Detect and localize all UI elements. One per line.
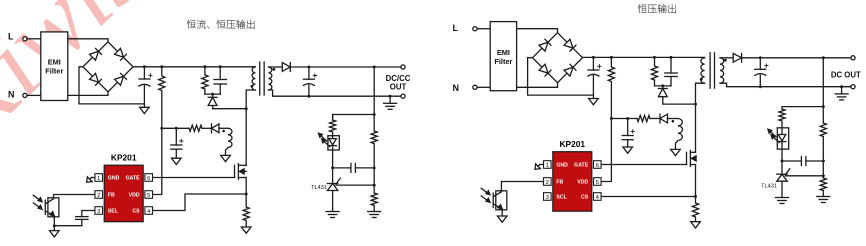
wire GATE: pin 6 to gate <box>153 177 235 179</box>
wire snubber cap to bar <box>670 77 672 86</box>
wire aux node to cap C13 <box>627 119 629 136</box>
optocoupler U2 phototransistor <box>33 195 59 217</box>
resistor R12 (snubber) <box>651 57 657 86</box>
junction <box>661 84 664 87</box>
IC U1 KP201 <box>95 153 153 222</box>
wire bar to snubber diode <box>662 86 664 89</box>
wire LED to TL431 <box>332 150 334 184</box>
wire bridge DC- to primary ground rail <box>79 67 144 104</box>
wire OUT- to earth ground <box>841 87 843 94</box>
wire primary bottom to MOSFET drain <box>696 83 705 152</box>
svg-text:SCL: SCL <box>556 195 567 201</box>
capacitor C6 (compensation) <box>333 163 375 172</box>
optocoupler U2 LED <box>319 133 340 150</box>
junction <box>245 107 248 110</box>
wire OUT+ rail <box>290 66 403 68</box>
wire cap C13 to ground <box>627 140 629 147</box>
wire pin 1 stub <box>540 164 544 166</box>
wire TL431 ref to divider <box>785 175 823 177</box>
TL431 U3 <box>327 178 340 190</box>
capacitor C14 (output) <box>755 64 768 76</box>
wire VDD: aux node to pin 5 <box>153 128 162 194</box>
junction <box>626 117 629 120</box>
ground (aux winding) <box>671 149 681 155</box>
wire rail to snubber cap <box>219 67 221 80</box>
IC U11 KP201 <box>544 139 602 211</box>
wire to bulk cap C11 <box>592 57 594 70</box>
wire OUT+ to cap C5 <box>308 67 310 79</box>
aux winding phase dot <box>672 120 675 123</box>
junction <box>373 184 376 187</box>
resistor R1 (startup) <box>159 67 165 129</box>
svg-text:L: L <box>453 23 459 33</box>
wire to bulk cap C1 <box>143 67 145 79</box>
wire LED to TL431 <box>781 149 783 174</box>
wire source down <box>245 178 247 195</box>
wire DC+ rail <box>133 66 255 68</box>
ground (VDD cap) <box>623 147 633 153</box>
resistor R5 (LED series) <box>330 115 336 136</box>
svg-text:EMI: EMI <box>48 58 61 67</box>
wire OUT- rail <box>720 83 853 87</box>
wire SEL: pin 3 to cap C4 <box>82 211 95 217</box>
svg-text:L: L <box>8 31 14 41</box>
wire snubber RC bar <box>655 85 672 87</box>
junction <box>245 193 248 196</box>
diode D3 (output rectifier) <box>282 63 290 72</box>
wire VDD: aux node to pin 5 <box>601 119 611 182</box>
transformer T2 <box>700 53 727 88</box>
wire OUT- rail <box>269 90 404 96</box>
wire secondary to D13 <box>720 57 733 59</box>
wire EMI to bridge AC1 <box>68 39 108 42</box>
aux winding phase dot <box>222 130 225 133</box>
svg-text:2: 2 <box>97 193 100 199</box>
wire GATE: pin 6 to gate <box>601 164 686 166</box>
junction <box>840 85 843 88</box>
svg-text:EMI: EMI <box>497 48 510 57</box>
junction <box>610 117 613 120</box>
wire snubber RC bar <box>205 93 220 95</box>
wire to opto ground <box>53 226 55 231</box>
svg-text:KP201: KP201 <box>111 153 137 163</box>
svg-text:Filter: Filter <box>45 67 63 76</box>
aux winding L1 <box>228 128 232 147</box>
svg-text:GND: GND <box>556 163 568 169</box>
svg-text:OUT: OUT <box>390 83 407 92</box>
bridge rectifier BR1 <box>83 42 133 92</box>
ground (output earth) <box>835 94 848 100</box>
terminal L (left) <box>23 37 27 41</box>
title: constant voltage output <box>638 4 676 13</box>
svg-text:VDD: VDD <box>577 180 588 186</box>
wire aux line 2 <box>650 118 660 120</box>
svg-text:6: 6 <box>596 163 599 169</box>
junction <box>653 56 656 59</box>
capacitor C3 (VDD) <box>171 139 183 149</box>
wire OUT- to earth ground <box>389 96 391 103</box>
svg-text:3: 3 <box>546 195 549 201</box>
EMI filter <box>41 32 68 101</box>
MOSFET Q2 <box>687 151 697 167</box>
ground (divider) <box>368 212 381 218</box>
junction <box>219 65 222 68</box>
svg-text:5: 5 <box>596 180 599 186</box>
wire primary bottom to MOSFET drain <box>246 90 255 165</box>
terminal DC OUT + <box>851 56 855 60</box>
terminal N (right) <box>473 85 477 89</box>
junction <box>53 224 56 227</box>
resistor R4 (aux) <box>189 125 202 131</box>
junction <box>143 65 146 68</box>
junction <box>307 66 310 69</box>
svg-text:SEL: SEL <box>108 209 119 215</box>
svg-text:2: 2 <box>546 180 549 186</box>
wire emitter node to SEL cap <box>54 225 82 227</box>
ground (sense resistor) <box>241 227 251 233</box>
wire bulk cap to rail <box>143 86 145 104</box>
diode D2 (aux rectifier), cathode left <box>212 124 220 133</box>
svg-text:N: N <box>453 83 460 93</box>
capacitor C15 (compensation) <box>782 157 823 166</box>
ground (opto emitter) <box>50 231 60 237</box>
optocoupler U12 LED <box>768 128 789 149</box>
wire TL431 to earth <box>332 191 334 212</box>
resistor R11 (startup) <box>608 57 614 118</box>
capacitor C2 (snubber) <box>214 80 226 85</box>
wire OUT+ rail <box>742 57 853 59</box>
junction <box>373 66 376 69</box>
wire cap C14 to OUT- <box>759 75 761 87</box>
wire snubber cap to bar <box>219 84 221 94</box>
junction <box>160 127 163 130</box>
junction <box>694 103 697 106</box>
junction <box>211 93 214 96</box>
ground (VDD cap) <box>172 158 182 164</box>
diode D1 (snubber clamp), cathode up <box>208 97 217 105</box>
diode D12 (aux rectifier), cathode left <box>660 114 668 123</box>
wire bar to snubber diode <box>212 94 214 97</box>
wire source down <box>695 165 697 197</box>
svg-text:GND: GND <box>108 176 120 182</box>
junction <box>592 56 595 59</box>
wire cap C3 to ground <box>175 149 177 158</box>
terminal DC OUT - <box>851 85 855 89</box>
svg-text:TL431: TL431 <box>761 184 777 190</box>
resistor R6 (divider top) <box>371 131 377 168</box>
diode D11 (snubber clamp), cathode up <box>658 89 667 97</box>
junction <box>331 166 334 169</box>
junction <box>759 56 762 59</box>
junction <box>670 56 673 59</box>
wire L to EMI filter <box>477 28 490 30</box>
svg-text:4: 4 <box>596 195 599 201</box>
wire secondary to D3 <box>269 66 283 68</box>
title: constant current / constant voltage output <box>187 20 255 29</box>
resistor R13 (current sense) <box>692 197 698 222</box>
diode D13 (output rectifier) <box>733 53 741 62</box>
junction <box>203 65 206 68</box>
resistor R17 (divider bottom) <box>820 161 826 197</box>
capacitor C13 (VDD) <box>622 130 634 140</box>
svg-text:6: 6 <box>147 176 150 182</box>
svg-text:KP201: KP201 <box>559 139 585 149</box>
wire aux line 1 <box>611 118 637 120</box>
terminal N (left) <box>23 93 27 97</box>
wire OUT+ down to divider <box>822 58 824 123</box>
wire snubber diode to drain node <box>663 97 696 104</box>
junction <box>175 127 178 130</box>
svg-text:N: N <box>8 90 15 100</box>
wire aux line 3 <box>219 127 228 129</box>
junction <box>373 113 376 116</box>
ground (opto emitter) <box>497 216 507 222</box>
watermark <box>0 0 164 167</box>
svg-text:1: 1 <box>97 176 100 182</box>
ground (primary, bulk) <box>140 107 150 113</box>
ground (U1 pin 1) <box>84 175 94 185</box>
junction <box>781 160 784 163</box>
wire pin 1 stub <box>92 177 95 179</box>
terminal L (right) <box>473 27 477 31</box>
ground (aux winding) <box>221 155 231 161</box>
svg-text:FB: FB <box>556 180 563 186</box>
svg-text:5: 5 <box>147 193 150 199</box>
capacitor C5 (output) <box>303 74 316 86</box>
wire tee to LED branch <box>782 107 823 109</box>
junction <box>694 195 697 198</box>
ground (TL431) <box>776 198 789 204</box>
wire EMI to bridge AC2 <box>68 92 108 96</box>
resistor R7 (divider bottom) <box>371 168 377 212</box>
wire tee to LED branch <box>333 115 375 121</box>
wire cap C5 to OUT- <box>308 85 310 96</box>
aux winding L11 <box>678 119 683 141</box>
ground (primary, bulk) <box>589 99 599 105</box>
MOSFET Q1 <box>235 164 247 180</box>
junction <box>389 95 392 98</box>
resistor R16 (divider top) <box>820 123 826 161</box>
junction <box>822 160 825 163</box>
svg-text:4: 4 <box>147 209 150 215</box>
wire opto emitter to ground <box>501 209 503 216</box>
ground (divider) <box>817 197 830 203</box>
wire EMI to bridge AC2 <box>517 83 558 88</box>
wire N to EMI filter <box>477 86 490 88</box>
resistor R14 (aux) <box>637 115 650 121</box>
wire CS: pin 4 to source node <box>601 196 695 198</box>
wire OUT+ to cap C14 <box>759 58 761 70</box>
svg-text:3: 3 <box>97 209 100 215</box>
wire rail to snubber cap <box>670 57 672 73</box>
junction <box>822 174 825 177</box>
ground (output earth) <box>384 103 397 109</box>
terminal DC/CC OUT + <box>401 65 405 69</box>
TL431 U13 <box>777 169 790 181</box>
svg-text:FB: FB <box>108 193 115 199</box>
wire TL431 ref to divider <box>336 184 374 186</box>
wire FB: opto collector to pin 2 <box>54 195 95 199</box>
capacitor C4 (SEL) <box>76 217 88 220</box>
ground (sense resistor) <box>691 222 701 228</box>
bridge rectifier BR2 <box>533 33 583 83</box>
ground (U11 pin 1) <box>533 162 543 172</box>
wire N to EMI filter <box>27 94 41 96</box>
wire aux winding to ground <box>676 141 679 150</box>
wire CS: pin 4 to source node <box>153 194 247 211</box>
wire aux line 2 <box>202 127 212 129</box>
svg-text:GATE: GATE <box>126 176 141 182</box>
wire rail to ground <box>592 95 594 98</box>
junction <box>822 56 825 59</box>
wire aux line 3 <box>668 118 679 120</box>
EMI filter (right) <box>490 22 516 91</box>
wire EMI to bridge AC1 <box>517 29 558 33</box>
resistor R2 (snubber) <box>202 67 208 94</box>
junction <box>373 166 376 169</box>
wire L to EMI filter <box>27 38 41 40</box>
wire bulk cap to rail <box>592 76 594 96</box>
terminal DC/CC OUT - <box>401 94 405 98</box>
wire DC+ rail <box>583 56 705 58</box>
svg-text:TL431: TL431 <box>311 185 327 191</box>
wire FB: opto collector to pin 2 <box>501 182 543 192</box>
svg-text:DC OUT: DC OUT <box>831 71 861 80</box>
junction <box>822 105 825 108</box>
svg-text:CS: CS <box>581 195 589 201</box>
svg-text:1: 1 <box>546 163 549 169</box>
capacitor C1 (bulk electrolytic) <box>139 74 152 87</box>
resistor R3 (current sense) <box>243 194 249 224</box>
wire cap C4 to emitter node <box>81 219 83 225</box>
junction <box>759 85 762 88</box>
resistor R15 (LED series) <box>779 109 785 128</box>
wire aux winding to ground <box>226 148 229 156</box>
wire rail to ground <box>143 104 145 107</box>
junction <box>610 56 613 59</box>
optocoupler U12 phototransistor <box>481 188 507 210</box>
wire aux node to cap C3 <box>175 128 177 145</box>
wire TL431 to earth <box>781 181 783 197</box>
svg-text:VDD: VDD <box>129 193 140 199</box>
wire snubber diode to drain node <box>213 106 247 109</box>
svg-text:GATE: GATE <box>574 163 589 169</box>
svg-text:DC/CC: DC/CC <box>386 74 411 83</box>
wire sense resistor to ground <box>245 224 247 227</box>
wire aux line 1 <box>162 127 189 129</box>
wire OUT+ down to divider <box>373 67 375 131</box>
transformer T1 <box>251 62 276 95</box>
junction <box>160 65 163 68</box>
wire bridge DC- to ground rail <box>528 58 594 95</box>
junction <box>307 95 310 98</box>
svg-text:Filter: Filter <box>494 57 512 66</box>
wire opto emitter down <box>53 216 55 226</box>
ground (TL431) <box>326 212 339 218</box>
capacitor C12 (snubber) <box>665 73 677 77</box>
capacitor C11 (bulk electrolytic) <box>588 65 601 77</box>
svg-text:CS: CS <box>132 209 140 215</box>
